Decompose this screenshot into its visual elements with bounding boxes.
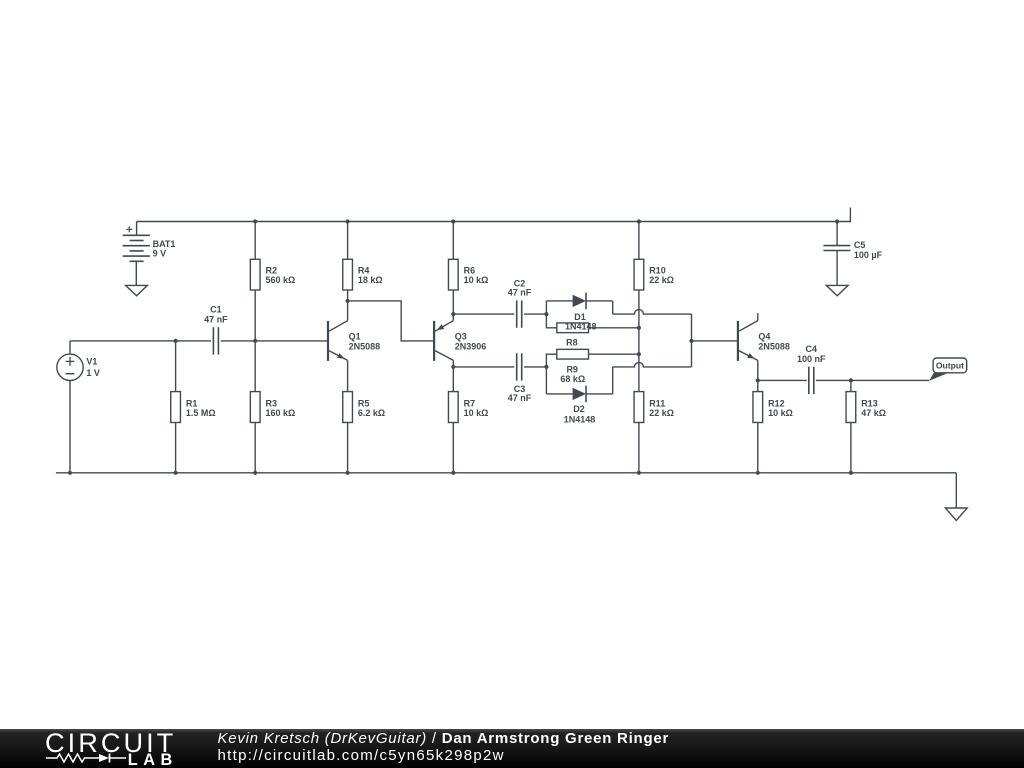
svg-text:9 V: 9 V xyxy=(153,248,167,258)
wire D1 anode xyxy=(546,300,572,302)
node C5 rail junction xyxy=(835,219,839,223)
node R12 ground xyxy=(756,471,760,475)
wire D1 cathode xyxy=(586,301,613,314)
svg-text:R1: R1 xyxy=(186,398,198,408)
svg-text:22 kΩ: 22 kΩ xyxy=(649,275,674,285)
svg-text:2N3906: 2N3906 xyxy=(455,342,487,352)
resistor R9 xyxy=(557,349,589,359)
label R7 10k xyxy=(464,398,489,418)
svg-text:1N4148: 1N4148 xyxy=(564,414,596,424)
svg-text:R4: R4 xyxy=(358,266,370,276)
label BAT1 9V xyxy=(153,239,176,258)
label C5 100uF xyxy=(854,240,883,260)
node R10 rail junction xyxy=(637,219,641,223)
capacitor C5 xyxy=(823,222,850,286)
label R9 68k xyxy=(560,364,585,384)
svg-text:47 kΩ: 47 kΩ xyxy=(861,408,886,418)
node Q4 emitter output xyxy=(756,378,760,382)
label Q4 2N5088 xyxy=(758,331,790,351)
node R1 ground xyxy=(174,471,178,475)
ground (C5) xyxy=(826,285,848,295)
diode D1 xyxy=(573,293,586,310)
footer text xyxy=(218,730,670,764)
svg-text:D2: D2 xyxy=(573,404,585,414)
wire D2 return up xyxy=(691,341,693,367)
svg-text:R6: R6 xyxy=(464,266,476,276)
label R12 10k xyxy=(768,398,793,418)
wire Q3 collector to C3 xyxy=(453,366,514,368)
label R3 160k xyxy=(266,398,296,418)
svg-text:1.5 MΩ: 1.5 MΩ xyxy=(186,408,216,418)
node N1 output sum xyxy=(689,339,693,343)
resistor R8 xyxy=(557,323,589,333)
node C1/R2 junction xyxy=(253,339,257,343)
resistor R5 xyxy=(343,360,353,472)
svg-text:R11: R11 xyxy=(649,398,665,408)
svg-text:10 kΩ: 10 kΩ xyxy=(768,408,793,418)
node R9 bias junction xyxy=(637,352,641,356)
wire C1 to Q1 base xyxy=(221,340,328,342)
node A xyxy=(544,312,548,316)
output flag xyxy=(929,358,966,381)
wire D2 return with hop xyxy=(613,362,692,367)
svg-text:R9: R9 xyxy=(566,364,578,374)
label C3 47nF xyxy=(508,384,532,403)
wire node B to R9 xyxy=(546,354,556,367)
node R8 bias junction xyxy=(637,326,641,330)
wire input signal xyxy=(70,340,211,342)
node C4/R13 junction xyxy=(849,378,853,382)
resistor R7 xyxy=(448,360,458,472)
label D2 1N4148 xyxy=(564,404,596,424)
svg-text:68 kΩ: 68 kΩ xyxy=(560,374,585,384)
node Q1 collector xyxy=(346,299,350,303)
resistor R10 xyxy=(634,222,644,392)
node R13 ground xyxy=(849,471,853,475)
wire R9 to bias line xyxy=(589,353,639,355)
svg-text:C1: C1 xyxy=(210,304,222,314)
wire Q4 emitter xyxy=(757,360,759,391)
svg-text:6.2 kΩ: 6.2 kΩ xyxy=(358,408,385,418)
resistor R1 xyxy=(171,341,181,473)
svg-text:R13: R13 xyxy=(861,398,878,408)
wire C2 to node A xyxy=(524,313,546,315)
label V1 1V xyxy=(86,357,100,378)
label C1 47nF xyxy=(204,304,228,324)
label Q3 2N3906 xyxy=(455,331,487,351)
node input/R1 junction xyxy=(174,339,178,343)
svg-text:C4: C4 xyxy=(806,344,818,354)
node R2 rail junction xyxy=(253,219,257,223)
svg-text:R8: R8 xyxy=(566,337,578,347)
svg-text:V1: V1 xyxy=(86,357,97,367)
wire +9V top rail xyxy=(137,221,851,223)
resistor R2 xyxy=(250,222,260,341)
label R5 6.2k xyxy=(358,398,385,418)
svg-text:1N4148: 1N4148 xyxy=(565,321,597,331)
node R4 rail junction xyxy=(346,219,350,223)
svg-text:D1: D1 xyxy=(574,312,586,322)
wire Q3 emitter to C2 xyxy=(453,313,514,315)
svg-text:R12: R12 xyxy=(768,398,785,408)
node Q3 emitter / C2 xyxy=(451,312,455,316)
label R1 1.5M xyxy=(186,398,216,418)
wire node B down xyxy=(545,367,547,394)
resistor R12 xyxy=(753,392,763,473)
capacitor C2 xyxy=(517,300,522,327)
capacitor C4 xyxy=(809,367,814,394)
capacitor C1 xyxy=(213,327,218,354)
transistor Q4 xyxy=(738,313,758,361)
wire Q4 emitter to C4 xyxy=(758,379,807,381)
wire to output flag xyxy=(851,379,929,381)
voltage source V1 xyxy=(57,341,83,473)
svg-text:Output: Output xyxy=(936,361,964,371)
resistor R4 xyxy=(343,222,353,301)
label R10 22k xyxy=(649,266,674,286)
svg-text:100 nF: 100 nF xyxy=(797,354,826,364)
svg-text:47 nF: 47 nF xyxy=(508,393,532,403)
capacitor C3 xyxy=(517,353,522,380)
svg-text:47 nF: 47 nF xyxy=(204,314,228,324)
label R11 22k xyxy=(649,398,674,418)
svg-text:Q3: Q3 xyxy=(455,331,467,341)
wire R8 to bias line xyxy=(589,327,639,329)
ground (battery) xyxy=(126,285,148,295)
wire node A up xyxy=(545,301,547,314)
svg-text:1 V: 1 V xyxy=(86,368,100,378)
svg-text:R10: R10 xyxy=(649,266,666,276)
node R11 ground xyxy=(637,471,641,475)
wire node N1 to Q4 base xyxy=(692,340,738,342)
wire bottom ground rail xyxy=(56,472,956,474)
battery BAT1 xyxy=(123,222,150,286)
wire C4 to R13 xyxy=(816,379,851,381)
svg-text:R5: R5 xyxy=(358,398,370,408)
svg-text:Q4: Q4 xyxy=(758,331,770,341)
svg-text:22 kΩ: 22 kΩ xyxy=(649,408,674,418)
footer bar xyxy=(0,729,1024,768)
transistor Q3 xyxy=(434,321,453,361)
svg-text:10 kΩ: 10 kΩ xyxy=(464,408,489,418)
label Q1 2N5088 xyxy=(349,331,381,351)
resistor R3 xyxy=(250,341,260,473)
label R6 10k xyxy=(464,266,489,286)
node R7 ground xyxy=(451,471,455,475)
wire D1 return down xyxy=(691,314,693,341)
wire D1 return with hop xyxy=(613,310,692,315)
resistor R6 xyxy=(448,222,458,321)
wire node A to R8 xyxy=(546,314,556,328)
label C2 47nF xyxy=(508,279,532,298)
label R8 xyxy=(566,337,578,347)
label R13 47k xyxy=(861,398,886,418)
wire D2 cathode xyxy=(586,367,613,394)
svg-text:100 µF: 100 µF xyxy=(854,250,883,260)
node R6 rail junction xyxy=(451,219,455,223)
node R5 ground xyxy=(346,471,350,475)
svg-text:Q1: Q1 xyxy=(349,331,361,341)
svg-text:R7: R7 xyxy=(464,398,476,408)
svg-text:160 kΩ: 160 kΩ xyxy=(266,408,296,418)
label C4 100nF xyxy=(797,344,826,364)
label R4 18k xyxy=(358,266,383,286)
svg-text:R2: R2 xyxy=(266,266,278,276)
svg-text:47 nF: 47 nF xyxy=(508,287,532,297)
label R2 560k xyxy=(266,266,296,286)
CircuitLab logo xyxy=(43,729,183,768)
svg-text:C5: C5 xyxy=(854,240,866,250)
node V1 ground xyxy=(68,471,72,475)
resistor R11 xyxy=(634,392,644,473)
wire C3 to node B xyxy=(524,366,546,368)
label D1 1N4148 xyxy=(565,312,597,332)
node Q3 collector / C3 xyxy=(451,365,455,369)
svg-text:2N5088: 2N5088 xyxy=(758,342,790,352)
node R3 ground xyxy=(253,471,257,475)
wire rail to ground xyxy=(955,473,957,508)
svg-text:18 kΩ: 18 kΩ xyxy=(358,275,383,285)
ground (main) xyxy=(945,508,967,520)
svg-text:R3: R3 xyxy=(266,398,278,408)
resistor R13 xyxy=(846,380,856,472)
svg-text:2N5088: 2N5088 xyxy=(349,342,381,352)
wire top-rail end stub xyxy=(849,208,851,223)
svg-text:10 kΩ: 10 kΩ xyxy=(464,275,489,285)
wire Q1 collector to Q3 base xyxy=(348,301,434,341)
diode D2 xyxy=(573,386,586,403)
wire D2 anode xyxy=(546,393,572,395)
svg-text:560 kΩ: 560 kΩ xyxy=(266,275,296,285)
node B xyxy=(544,365,548,369)
transistor Q1 xyxy=(328,301,348,361)
